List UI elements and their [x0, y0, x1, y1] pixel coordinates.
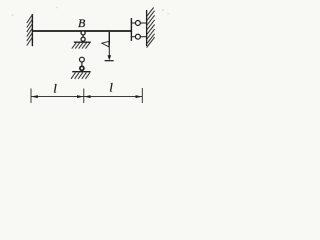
dimension: right extension tick	[141, 88, 143, 103]
dimension arrowhead middle-right	[84, 95, 91, 98]
support B: ground hatching	[72, 43, 90, 49]
dimension arrowhead right end	[136, 95, 143, 98]
gap arrow: open left-pointing arrowhead	[102, 41, 109, 47]
right slider: top roller wheel	[135, 21, 140, 26]
right wall line	[146, 10, 148, 46]
lower middle support: bottom pin circle	[80, 66, 84, 70]
gap arrow: vertical line	[108, 32, 110, 45]
dimension line span 1	[31, 96, 84, 98]
beam	[32, 30, 132, 32]
right slider: top roller axle	[131, 22, 146, 24]
dimension arrowhead middle-left	[77, 95, 84, 98]
lower middle support: top hinge circle	[80, 57, 85, 62]
dimension arrowhead left end	[31, 95, 38, 98]
svg-text:B: B	[78, 16, 86, 30]
support B: ground line	[74, 41, 91, 43]
lower middle support: link stem	[81, 62, 83, 66]
scan noise specks	[12, 7, 169, 16]
background paper	[0, 0, 187, 111]
support B: link stem	[82, 35, 84, 38]
support B: upper pin circle	[81, 31, 85, 35]
right wall hatching	[147, 8, 155, 48]
right slider: bottom roller wheel	[135, 34, 140, 39]
right slider: bottom roller axle	[131, 36, 146, 38]
left wall hatching	[27, 14, 33, 45]
dimension line span 2	[84, 96, 143, 98]
lower middle support: ground line	[72, 71, 90, 73]
svg-text:l: l	[109, 80, 113, 95]
gap arrow: bottom tick	[105, 60, 114, 62]
left fixed wall line	[31, 14, 33, 46]
dimension: left extension tick	[30, 89, 32, 104]
support B: lower pin circle	[81, 37, 85, 41]
lower middle support: ground hatching	[71, 72, 90, 78]
svg-text:l: l	[53, 81, 57, 96]
right slider: vertical bar	[130, 18, 132, 41]
dimension: middle extension tick	[83, 89, 85, 104]
gap arrow: filled down arrowhead	[108, 55, 112, 60]
